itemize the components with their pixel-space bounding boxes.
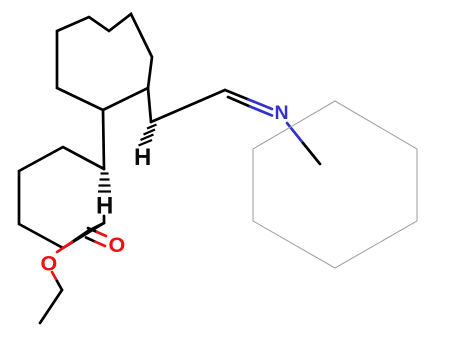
ring A (lower-left cyclohexane) bbox=[19, 147, 104, 248]
svg-text:N: N bbox=[275, 102, 289, 124]
svg-text:H: H bbox=[134, 144, 151, 171]
ester single bond C-O2 (black half + red half) bbox=[57, 231, 88, 252]
long bond S1 to imine carbon bbox=[151, 90, 225, 122]
imine C=N double bond, outer line (black half + blue half) bbox=[225, 90, 272, 109]
imine C=N double bond, inner line (black half + blue half) bbox=[228, 97, 272, 116]
bond C10-C5 (ring1 bottom vertex down to stereocenter S2) bbox=[103, 110, 104, 169]
svg-text:H: H bbox=[96, 193, 113, 220]
ring A right edge stub below H2 label bbox=[103, 216, 106, 223]
phenyl ring (large thin gray hexagon) bbox=[253, 101, 417, 268]
bond CH2-CH3 ethyl tail bbox=[40, 290, 62, 323]
svg-text:O: O bbox=[41, 252, 58, 276]
bond C4 to ester carbonyl carbon bbox=[88, 223, 104, 231]
ring 1 (upper-left carbocycle with W-shaped top) bbox=[57, 14, 152, 110]
bond N to phenyl (blue half + black half) bbox=[287, 123, 320, 164]
hashed wedge bond S1-H1 bbox=[139, 125, 157, 146]
bond O2 to ethyl CH2 (red half + black half) bbox=[52, 272, 62, 290]
ester C=O double bond, upper line (black half + red half) bbox=[88, 228, 106, 236]
ester C=O double bond, lower line (black half + red half) bbox=[86, 238, 105, 247]
bond C8a-C8 (ring1 right vertex down to stereocenter S1) bbox=[148, 88, 151, 122]
hashed wedge bond S2-H2 bbox=[98, 174, 111, 192]
svg-text:O: O bbox=[109, 233, 126, 257]
